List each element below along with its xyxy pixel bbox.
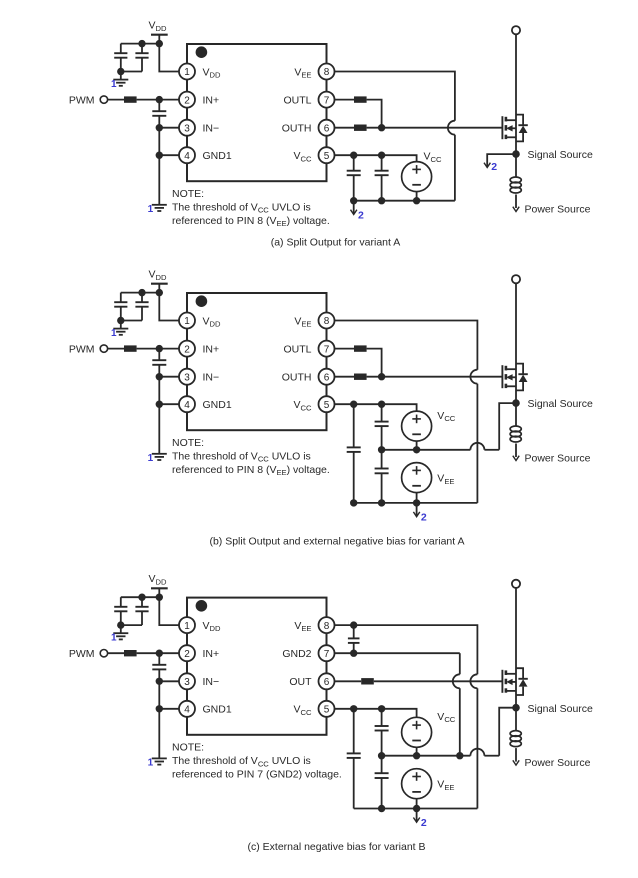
resistor OUTH gate (a)	[354, 125, 367, 131]
svg-text:VDD: VDD	[203, 620, 221, 633]
capacitor bulk left (c)	[347, 709, 361, 809]
ground 1 lower (circuit a)	[152, 205, 167, 211]
pin 1 (circuit a)	[179, 64, 195, 80]
voltage source VEE (b)	[402, 463, 432, 493]
voltage source VEE (c)	[402, 769, 432, 799]
capacitor VDD bypass C1 (circuit c)	[114, 597, 127, 625]
wire OUT to gate (c)	[374, 680, 503, 682]
terminal PWM input (circuit c)	[100, 650, 107, 657]
node VEE cap junction (c)	[350, 621, 357, 628]
pin label VCC (circuit c)	[294, 704, 312, 717]
svg-text:Power Source: Power Source	[525, 204, 591, 216]
svg-text:PWM: PWM	[69, 343, 95, 355]
input label PWM (circuit c)	[69, 648, 95, 660]
wire middle rail (b)	[382, 449, 500, 451]
pin label IN+ (circuit a)	[203, 94, 220, 106]
note line 2 (circuit b)	[172, 464, 330, 477]
label Signal Source (circuit c)	[528, 703, 594, 715]
wire VEE down to bottom rail (b)	[476, 384, 478, 503]
pin 3 (circuit c)	[179, 673, 195, 689]
wire hop middle rail over VEE (b)	[470, 443, 484, 450]
transistor Q1 MOSFET (circuit a)	[502, 116, 516, 139]
pin label VDD (circuit c)	[203, 620, 221, 633]
pin 4 (circuit a)	[179, 147, 195, 163]
svg-text:NOTE:: NOTE:	[172, 742, 204, 754]
node rail source (a)	[413, 197, 420, 204]
note line 1 (circuit c)	[172, 755, 311, 768]
svg-text:(a) Split Output for variant A: (a) Split Output for variant A	[271, 237, 401, 249]
svg-text:1: 1	[184, 316, 190, 327]
capacitor VCC bypass (b)	[375, 404, 389, 450]
svg-text:GND1: GND1	[203, 150, 232, 162]
net 2 arrow below rail (b)	[413, 503, 419, 517]
svg-text:VCC: VCC	[424, 151, 442, 164]
wire resistor to pin 2 (circuit b)	[137, 348, 179, 350]
svg-text:referenced to PIN 8 (VEE) volt: referenced to PIN 8 (VEE) voltage.	[172, 215, 330, 228]
svg-text:1: 1	[111, 79, 117, 90]
svg-text:GND2: GND2	[282, 648, 311, 660]
svg-text:VEE: VEE	[437, 473, 454, 486]
node GND1 junction (circuit c)	[156, 705, 163, 712]
node bottom rail source (b)	[413, 499, 420, 506]
svg-text:7: 7	[324, 344, 330, 355]
resistor input series (circuit c)	[124, 650, 137, 656]
svg-text:OUTH: OUTH	[282, 372, 312, 384]
wire to pin 3 (circuit a)	[159, 127, 179, 129]
wire cap1 to ground (circuit c)	[120, 625, 122, 633]
VDD power-rail symbol (circuit b)	[151, 284, 168, 293]
wire resistor to pin 2 (circuit c)	[137, 652, 179, 654]
capacitor VCC bypass (c)	[375, 709, 389, 756]
svg-text:GND1: GND1	[203, 399, 232, 411]
caption (a)	[271, 237, 401, 249]
svg-text:IN+: IN+	[203, 94, 220, 106]
node cap2 top junction (circuit b)	[138, 289, 145, 296]
svg-text:VEE: VEE	[294, 620, 311, 633]
pin label IN+ (circuit b)	[203, 343, 220, 355]
svg-text:(b) Split Output and external: (b) Split Output and external negative b…	[209, 535, 464, 547]
ground 1 lower (circuit b)	[152, 454, 167, 460]
node GND2 cap junction (c)	[350, 650, 357, 657]
VDD power-rail symbol (circuit c)	[151, 588, 168, 597]
svg-text:The threshold of VCC UVLO is: The threshold of VCC UVLO is	[172, 755, 311, 768]
net 2 arrow below rail (a)	[351, 201, 357, 215]
net label 2 (blue) (c)	[421, 817, 427, 829]
pin label IN+ (circuit c)	[203, 648, 220, 660]
svg-text:NOTE:: NOTE:	[172, 188, 204, 200]
wire VEE down to bottom rail (c)	[476, 688, 478, 808]
svg-text:4: 4	[184, 705, 190, 716]
svg-text:OUTH: OUTH	[282, 123, 312, 135]
terminal drain top (circuit a)	[512, 26, 520, 34]
inductor load (circuit a)	[510, 154, 521, 208]
svg-text:5: 5	[324, 151, 330, 162]
svg-text:PWM: PWM	[69, 648, 95, 660]
wire resistor to pin 2 (circuit a)	[137, 99, 179, 101]
wire VCC source to middle rail (b)	[416, 441, 418, 450]
node VCC rail capT (b)	[378, 401, 385, 408]
label VCC source (c)	[437, 711, 455, 724]
svg-text:OUT: OUT	[289, 676, 312, 688]
svg-text:OUTL: OUTL	[283, 94, 311, 106]
wire IN- to GND1 (circuit a)	[158, 128, 160, 156]
net label 1 (blue) upper-left (circuit c)	[111, 632, 117, 643]
svg-text:8: 8	[324, 316, 330, 327]
svg-text:3: 3	[184, 123, 190, 134]
svg-text:8: 8	[324, 67, 330, 78]
node middle rail GND2 (c)	[456, 752, 463, 759]
svg-text:VEE: VEE	[294, 315, 311, 328]
node IN+ junction (circuit b)	[156, 345, 163, 352]
terminal PWM input (circuit b)	[100, 345, 107, 352]
node IN+ junction (circuit a)	[156, 96, 163, 103]
ground 1 upper-left (circuit b)	[113, 329, 128, 335]
svg-text:Signal Source: Signal Source	[528, 703, 594, 715]
pin label OUT (circuit c)	[289, 676, 312, 688]
svg-text:1: 1	[148, 453, 154, 464]
body diode of Q1 (circuit c)	[516, 668, 528, 695]
svg-text:2: 2	[491, 161, 497, 173]
pin 5 (circuit c)	[319, 701, 335, 717]
wire GND1 to ground (circuit b)	[158, 404, 160, 454]
capacitor VDD bypass C2 (circuit b)	[135, 293, 148, 321]
wire GND1 to ground (circuit c)	[158, 709, 160, 759]
caption (c)	[248, 841, 426, 853]
net label 1 (blue) lower (circuit b)	[148, 453, 154, 464]
pin 6 (circuit b)	[319, 369, 335, 385]
svg-text:1: 1	[184, 621, 190, 632]
wire cap bottoms (circuit b)	[121, 320, 142, 322]
wire VDD down to pin 1 (circuit b)	[159, 293, 179, 321]
node VCC rail capA (a)	[350, 152, 357, 159]
svg-text:1: 1	[148, 204, 154, 215]
net label 2 (blue) below rail (a)	[358, 209, 364, 221]
wire OUTL to OUTH node (b)	[367, 349, 382, 377]
node cap1 bottom junction (circuit b)	[117, 317, 124, 324]
pin 5 (circuit a)	[319, 147, 335, 163]
wire middle rail up to source node (c)	[499, 708, 516, 756]
pin label GND1 (circuit b)	[203, 399, 232, 411]
svg-text:Signal Source: Signal Source	[528, 398, 594, 410]
node middle rail sources (b)	[413, 446, 420, 453]
terminal Power Source arrow (circuit c)	[513, 760, 519, 765]
node source junction (circuit c)	[512, 704, 520, 712]
svg-text:1: 1	[111, 632, 117, 643]
note heading (circuit a)	[172, 188, 204, 200]
wire cap1 to ground (circuit b)	[120, 321, 122, 329]
capacitor input filter (circuit a)	[152, 100, 166, 128]
pin label VDD (circuit a)	[203, 66, 221, 79]
svg-text:IN+: IN+	[203, 648, 220, 660]
body diode of Q1 (circuit b)	[516, 364, 528, 391]
node VCC rail capT (c)	[378, 705, 385, 712]
node cap1 bottom junction (circuit c)	[117, 621, 124, 628]
pin label VEE (circuit c)	[294, 620, 311, 633]
svg-text:2: 2	[184, 344, 190, 355]
wire cap bottoms (circuit a)	[121, 71, 142, 73]
wire OUTL to OUTH node (a)	[367, 100, 382, 128]
wire PWM to resistor (circuit b)	[108, 348, 124, 350]
wire drain trunk (circuit b)	[515, 283, 517, 403]
node bottom rail capL (b)	[350, 499, 357, 506]
wire hop VEE over gate wire (c)	[470, 674, 477, 688]
pin 6 (circuit a)	[319, 120, 335, 136]
body diode of Q1 (circuit a)	[516, 115, 528, 142]
input label PWM (circuit b)	[69, 343, 95, 355]
op-amp/driver IC body (circuit b)	[187, 293, 327, 430]
pin label OUTL (circuit b)	[283, 343, 311, 355]
wire VDD down to pin 1 (circuit a)	[159, 44, 179, 72]
node VDD-cap junction (circuit a)	[156, 40, 163, 47]
net label 1 (blue) lower (circuit a)	[148, 204, 154, 215]
wire VEE source to bottom rail (b)	[416, 493, 418, 503]
pin label OUTL (circuit a)	[283, 94, 311, 106]
svg-text:4: 4	[184, 400, 190, 411]
caption (b)	[209, 535, 464, 547]
svg-text:5: 5	[324, 705, 330, 716]
pin label IN&#8722; (circuit a)	[203, 123, 220, 135]
pin label VDD (circuit b)	[203, 315, 221, 328]
wire pin5 VCC rail (a)	[335, 155, 417, 161]
svg-text:1: 1	[184, 67, 190, 78]
svg-text:NOTE:: NOTE:	[172, 437, 204, 449]
svg-text:IN−: IN−	[203, 676, 220, 688]
wire pin8 VEE to rail (a)	[335, 72, 455, 121]
pin 1 (circuit b)	[179, 313, 195, 329]
net label 2 (blue) (b)	[421, 512, 427, 524]
svg-text:OUTL: OUTL	[283, 343, 311, 355]
wire pin8 VEE to right (c)	[335, 625, 478, 674]
node IN- junction (circuit c)	[156, 678, 163, 685]
label Power Source (circuit c)	[525, 757, 591, 769]
IC pin-1 indicator dot (circuit c)	[196, 600, 208, 612]
label Power Source (circuit a)	[525, 204, 591, 216]
svg-text:2: 2	[358, 209, 364, 221]
wire VDD down to pin 1 (circuit c)	[159, 597, 179, 625]
wire to pin 4 (circuit a)	[159, 154, 179, 156]
pin 8 (circuit b)	[319, 313, 335, 329]
svg-text:VDD: VDD	[203, 66, 221, 79]
svg-text:The threshold of VCC UVLO is: The threshold of VCC UVLO is	[172, 201, 311, 214]
capacitor VDD bypass C2 (circuit c)	[135, 597, 148, 625]
wire pin8 VEE to right (b)	[335, 321, 478, 370]
node rail capB (a)	[378, 197, 385, 204]
node middle rail sources (c)	[413, 752, 420, 759]
capacitor VEE bypass (c)	[375, 756, 389, 809]
wire OUTH to gate (b)	[367, 376, 503, 378]
wire PWM to resistor (circuit a)	[108, 99, 124, 101]
terminal drain top (circuit c)	[512, 580, 520, 588]
svg-text:VDD: VDD	[149, 20, 167, 33]
wire hop VEE over gate wire (b)	[470, 370, 477, 384]
node bottom rail capB (b)	[378, 499, 385, 506]
pin label GND2 (circuit c)	[282, 648, 311, 660]
node IN+ junction (circuit c)	[156, 650, 163, 657]
VDD power-rail symbol (circuit a)	[151, 35, 168, 44]
svg-text:VCC: VCC	[294, 704, 312, 717]
wire hop GND2 over gate wire (c)	[453, 674, 460, 688]
svg-text:VDD: VDD	[149, 573, 167, 586]
wire pin6 OUTH lead (b)	[335, 376, 355, 378]
note line 2 (circuit a)	[172, 215, 330, 228]
svg-text:(c) External negative bias for: (c) External negative bias for variant B	[248, 841, 426, 853]
svg-text:8: 8	[324, 621, 330, 632]
wire cap1 to ground (circuit a)	[120, 72, 122, 80]
pin label IN&#8722; (circuit b)	[203, 372, 220, 384]
wire VEE source to bottom rail (c)	[416, 799, 418, 809]
wire GND1 to ground (circuit a)	[158, 155, 160, 205]
voltage source VCC (b)	[402, 411, 432, 441]
net label 1 (blue) upper-left (circuit a)	[111, 79, 117, 90]
svg-text:1: 1	[148, 757, 154, 768]
svg-text:IN+: IN+	[203, 343, 220, 355]
op-amp/driver IC body (circuit a)	[187, 44, 327, 181]
input label PWM (circuit a)	[69, 94, 95, 106]
wire VDD top rail (circuit c)	[121, 596, 160, 598]
node IN- junction (circuit b)	[156, 373, 163, 380]
svg-text:IN−: IN−	[203, 372, 220, 384]
svg-text:7: 7	[324, 95, 330, 106]
node cap2 top junction (circuit a)	[138, 40, 145, 47]
node OUTL/OUTH junction (b)	[378, 373, 385, 380]
node rail capA (a)	[350, 197, 357, 204]
pin 6 (circuit c)	[319, 673, 335, 689]
capacitor input filter (circuit c)	[152, 653, 166, 681]
power label VDD (circuit a)	[149, 20, 167, 33]
pin label VEE (circuit b)	[294, 315, 311, 328]
label Signal Source (circuit a)	[528, 149, 594, 161]
power label VDD (circuit c)	[149, 573, 167, 586]
wire pin7 GND2 to right (c)	[335, 653, 460, 674]
pin 3 (circuit b)	[179, 369, 195, 385]
node middle rail capT (b)	[378, 446, 385, 453]
svg-text:2: 2	[421, 512, 427, 524]
transistor Q1 MOSFET (circuit b)	[502, 365, 516, 388]
ground 1 lower (circuit c)	[152, 758, 167, 764]
net label 1 (blue) lower (circuit c)	[148, 757, 154, 768]
terminal Power Source arrow (circuit a)	[513, 207, 519, 212]
svg-text:VDD: VDD	[149, 269, 167, 282]
label VEE source (c)	[437, 779, 454, 792]
transistor Q1 MOSFET (circuit c)	[502, 670, 516, 693]
wire VDD top rail (circuit b)	[121, 292, 160, 294]
pin label VEE (circuit a)	[294, 66, 311, 79]
wire IN- to GND1 (circuit c)	[158, 681, 160, 709]
node bottom rail capB (c)	[378, 805, 385, 812]
wire drain trunk (circuit c)	[515, 588, 517, 708]
wire pin7 OUTL lead (b)	[335, 348, 355, 350]
wire hop VEE over OUTH (a)	[448, 121, 455, 135]
inductor load (circuit c)	[510, 708, 521, 762]
svg-text:VEE: VEE	[294, 66, 311, 79]
svg-text:2: 2	[184, 649, 190, 660]
wire pin7 OUTL lead (a)	[335, 99, 355, 101]
wire OUTH to gate (a)	[367, 127, 503, 129]
wire GND2 down to middle rail (c)	[459, 688, 461, 755]
capacitor VDD bypass C1 (circuit b)	[114, 293, 127, 321]
capacitor bulk left (b)	[347, 404, 361, 503]
capacitor VCC bypass B (a)	[375, 155, 389, 201]
resistor OUT gate (c)	[361, 678, 374, 684]
svg-text:6: 6	[324, 123, 330, 134]
wire cap bottoms (circuit c)	[121, 624, 142, 626]
capacitor VEE-GND2 (c)	[348, 625, 360, 653]
pin label OUTH (circuit b)	[282, 372, 312, 384]
pin label VCC (circuit b)	[294, 399, 312, 412]
svg-text:5: 5	[324, 400, 330, 411]
power label VDD (circuit b)	[149, 269, 167, 282]
note line 1 (circuit a)	[172, 201, 311, 214]
wire VCC source to middle rail (c)	[416, 747, 418, 755]
wire pin5 VCC rail (b)	[335, 404, 417, 411]
svg-text:2: 2	[421, 817, 427, 829]
capacitor VEE bypass (b)	[375, 450, 389, 503]
pin 8 (circuit c)	[319, 617, 335, 633]
resistor OUTL gate (b)	[354, 345, 367, 351]
svg-text:3: 3	[184, 372, 190, 383]
svg-text:Signal Source: Signal Source	[528, 149, 594, 161]
node cap2 top junction (circuit c)	[138, 594, 145, 601]
label Signal Source (circuit b)	[528, 398, 594, 410]
wire PWM to resistor (circuit c)	[108, 652, 124, 654]
node VDD-cap junction (circuit b)	[156, 289, 163, 296]
svg-text:Power Source: Power Source	[525, 757, 591, 769]
ground 1 upper-left (circuit c)	[113, 633, 128, 639]
pin 7 (circuit a)	[319, 92, 335, 108]
node bottom rail source (c)	[413, 805, 420, 812]
svg-text:The threshold of VCC UVLO is: The threshold of VCC UVLO is	[172, 450, 311, 463]
pin 1 (circuit c)	[179, 617, 195, 633]
pin 2 (circuit b)	[179, 341, 195, 357]
pin label OUTH (circuit a)	[282, 123, 312, 135]
node IN- junction (circuit a)	[156, 124, 163, 131]
node cap1 bottom junction (circuit a)	[117, 68, 124, 75]
node GND1 junction (circuit b)	[156, 401, 163, 408]
terminal drain top (circuit b)	[512, 275, 520, 283]
pin 2 (circuit a)	[179, 92, 195, 108]
svg-text:Power Source: Power Source	[525, 453, 591, 465]
terminal Power Source arrow (circuit b)	[513, 456, 519, 461]
net label 2 (blue) at source (a)	[491, 161, 497, 173]
node source junction (circuit b)	[512, 399, 520, 407]
pin 3 (circuit a)	[179, 120, 195, 136]
wire bottom rail (b)	[354, 502, 478, 504]
svg-text:referenced to PIN 8 (VEE) volt: referenced to PIN 8 (VEE) voltage.	[172, 464, 330, 477]
svg-text:6: 6	[324, 372, 330, 383]
label VEE source (b)	[437, 473, 454, 486]
wire pin6 OUTH lead (a)	[335, 127, 355, 129]
IC pin-1 indicator dot (circuit b)	[196, 295, 208, 307]
pin label IN&#8722; (circuit c)	[203, 676, 220, 688]
capacitor input filter (circuit b)	[152, 349, 166, 377]
capacitor VDD bypass C1 (circuit a)	[114, 44, 127, 72]
svg-text:VCC: VCC	[294, 399, 312, 412]
ground 1 upper-left (circuit a)	[113, 80, 128, 86]
wire hop middle rail over VEE (c)	[470, 749, 484, 756]
pin label VCC (circuit a)	[294, 150, 312, 163]
wire bottom rail (c)	[354, 808, 478, 810]
node VCC rail capL (b)	[350, 401, 357, 408]
wire to pin 3 (circuit b)	[159, 376, 179, 378]
svg-text:referenced to PIN 7 (GND2) vol: referenced to PIN 7 (GND2) voltage.	[172, 768, 342, 780]
node middle rail capT (c)	[378, 752, 385, 759]
svg-text:IN−: IN−	[203, 123, 220, 135]
note line 1 (circuit b)	[172, 450, 311, 463]
pin 7 (circuit c)	[319, 645, 335, 661]
pin label GND1 (circuit a)	[203, 150, 232, 162]
net label 1 (blue) upper-left (circuit b)	[111, 328, 117, 339]
wire to pin 4 (circuit b)	[159, 403, 179, 405]
